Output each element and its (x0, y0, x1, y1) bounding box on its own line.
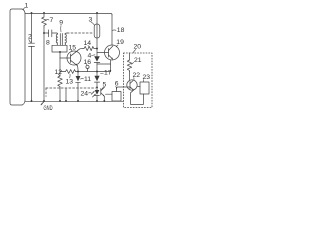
label 17 (101, 70, 112, 77)
phototransistor 5 (101, 87, 105, 101)
wire stub x66 (65, 89, 67, 102)
svg-text:1: 1 (25, 3, 29, 10)
wire dashed y88 (46, 87, 96, 89)
node junction dots bottom (31, 100, 33, 102)
label 12 (55, 69, 63, 76)
wire dashed corner x46 (45, 88, 47, 97)
resistor R12 (58, 76, 63, 88)
resistor R13 (66, 70, 76, 74)
label 15 (69, 45, 77, 52)
label 5 (101, 82, 106, 91)
label 13 (66, 74, 74, 85)
transformer T9 right winding (65, 33, 67, 45)
svg-text:19: 19 (116, 39, 124, 46)
LED arrows (91, 91, 95, 97)
wire Q19 base (97, 52, 109, 54)
wire Q19 emitter down (110, 60, 112, 72)
wire Q15 emitter down (77, 66, 80, 72)
svg-text:8: 8 (46, 40, 50, 47)
label 23 (143, 74, 151, 82)
wire bottom bus (25, 100, 124, 102)
wire R12 to bottom (59, 88, 61, 101)
transformer T9 left winding (56, 33, 57, 45)
transformer base box (52, 45, 67, 52)
svg-text:15: 15 (69, 45, 77, 52)
wire line-44 vertical (43, 27, 45, 101)
terminal 16 (86, 65, 89, 71)
diode D11 (76, 72, 81, 102)
svg-text:14: 14 (84, 40, 92, 47)
resistor R14 (84, 46, 97, 50)
svg-text:11: 11 (84, 76, 91, 83)
wire line-2 vertical (31, 13, 33, 101)
label 21 (132, 57, 142, 64)
node junction dot cap8 branch (43, 32, 45, 34)
resistor R21 (127, 53, 131, 80)
svg-text:9: 9 (59, 20, 63, 27)
svg-text:7: 7 (50, 17, 54, 24)
svg-text:18: 18 (117, 27, 125, 34)
transistor Q19 (105, 45, 120, 60)
wire output bus y71.5 (60, 71, 111, 73)
label 3 (89, 17, 95, 26)
label 18 (113, 27, 125, 34)
wire Q22 emitter to bottom (131, 90, 144, 104)
label 24 (81, 91, 92, 98)
wire branch y64 (97, 63, 111, 65)
svg-text:6: 6 (115, 81, 119, 88)
diode D17 (94, 63, 99, 88)
node junction dot bus/diode17 (96, 71, 98, 73)
capacitor C8 (44, 30, 57, 37)
label 7 (46, 17, 54, 24)
wire Q22 base (117, 87, 131, 89)
wire top bus (25, 13, 112, 15)
svg-text:20: 20 (134, 44, 142, 51)
diode D4 (94, 56, 100, 62)
label 19 (116, 39, 124, 47)
label 16 (84, 59, 92, 66)
svg-text:24: 24 (81, 91, 89, 98)
wire box to node (59, 52, 61, 76)
wire dashed coupling to fuse (67, 32, 93, 34)
node junction dot at R7 top (43, 12, 45, 14)
svg-text:GND: GND (44, 106, 53, 112)
node junction dot at fuse top (96, 12, 98, 14)
label 1 (23, 3, 28, 10)
label 6 (115, 81, 119, 89)
label 22 (133, 72, 141, 80)
node junction dot top-left (31, 12, 33, 14)
box 6 (106, 89, 122, 101)
box 23 (138, 82, 149, 94)
transistor Q15 (67, 49, 81, 65)
wire base of Q15 (60, 57, 71, 59)
svg-text:17: 17 (104, 70, 112, 77)
label 14 (84, 40, 92, 47)
wire Q15 collector to R14 (79, 48, 84, 51)
svg-text:12: 12 (55, 69, 63, 76)
svg-text:13: 13 (66, 79, 74, 86)
label 4 (88, 53, 96, 60)
label 11 (81, 76, 92, 83)
node junction dot R14/fuse (96, 48, 98, 50)
node junction dot under box (59, 51, 61, 53)
node junction dot emitter/diode11 (77, 71, 79, 73)
label 2 (28, 34, 32, 43)
resistor R7 (42, 13, 47, 27)
node junction dot LED top (96, 86, 98, 88)
transformer T9 core (60, 34, 62, 46)
LED D24 (95, 87, 100, 101)
svg-text:21: 21 (134, 57, 142, 64)
capacitor C2 (29, 43, 35, 46)
fuse F3 (94, 13, 100, 56)
dashed box 20 (124, 53, 153, 108)
plug P1 (AC source loop, tall rounded box at left) (10, 9, 25, 105)
label 9 (59, 20, 63, 32)
wire rail 18 vertical (111, 15, 113, 46)
transistor Q22 (127, 80, 137, 90)
ground (41, 102, 53, 113)
label 20 (133, 44, 141, 53)
